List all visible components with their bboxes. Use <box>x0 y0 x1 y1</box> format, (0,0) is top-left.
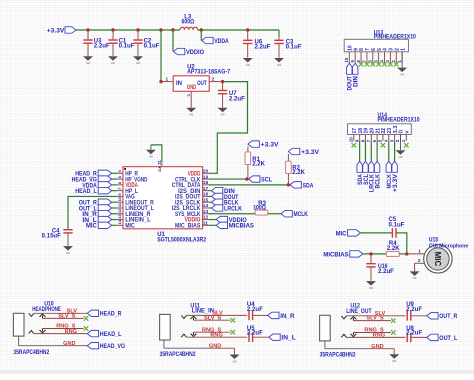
capacitor U4 2.2uF <box>247 302 263 320</box>
U10 pin SLV_S <box>43 314 84 320</box>
wire SYS_MCLK to R3 <box>208 213 255 215</box>
U11 tip contact <box>181 315 186 318</box>
wire HEAD_R to U1 <box>112 172 118 174</box>
U12 tip contact <box>341 316 346 319</box>
svg-text:16: 16 <box>203 192 209 198</box>
no-connect RNG_S <box>84 326 89 331</box>
wire C5 to mic node <box>396 233 407 254</box>
wire U9 to OUT_R <box>411 315 427 317</box>
svg-text:OUT_L: OUT_L <box>439 335 457 342</box>
wire HEAD_VG to U1 <box>112 178 118 180</box>
pin 1 U15 <box>407 248 425 254</box>
net flag MCLK <box>281 211 308 219</box>
node junction VDDIO branch <box>171 28 174 31</box>
net flag VDDA <box>202 37 229 45</box>
wire U14 pin 8 <box>364 141 366 162</box>
connector U10 HEADPHONE 35RAPC4BHN2 <box>13 302 61 356</box>
net flag HEAD_R (U1 left) <box>75 170 111 178</box>
wire CTRL_CLK to SCL <box>208 178 247 180</box>
svg-text:GND: GND <box>232 359 236 363</box>
svg-text:600Ω: 600Ω <box>182 19 195 25</box>
svg-text:SCL: SCL <box>261 176 272 183</box>
net flag IN_L <box>269 334 296 342</box>
wire +3.3V down to U2 IN <box>160 30 162 82</box>
svg-text:SLV_S: SLV_S <box>204 315 222 321</box>
node junction C1 <box>111 28 114 31</box>
no-connect SLV_S <box>391 318 396 323</box>
wire HEAD_L to U1 <box>112 190 118 192</box>
svg-text:2: 2 <box>418 258 421 264</box>
capacitor U7 2.2uF <box>218 82 245 108</box>
node junction mic pin1 <box>405 252 408 255</box>
svg-text:LRCLK: LRCLK <box>224 205 242 212</box>
node junction to U2 <box>159 28 162 31</box>
ground below U15 pin 2 <box>410 271 420 276</box>
ground below C4 <box>63 246 73 251</box>
svg-text:0.1uF: 0.1uF <box>119 44 135 50</box>
wire OUT_L to U1 <box>112 207 118 209</box>
svg-text:2.2uF: 2.2uF <box>94 44 110 50</box>
svg-text:1: 1 <box>166 76 169 82</box>
U10 ring contact <box>29 331 34 334</box>
net flag MICBIAS (U1) <box>216 222 254 230</box>
pin 3 U2 GND <box>186 91 191 107</box>
node junction SCL <box>245 177 248 180</box>
U1 top pin 21 <box>157 159 162 166</box>
capacitor C1 0.1uF <box>108 30 135 56</box>
wire OUT_R to U1 <box>112 201 118 203</box>
wire +3.3V rail <box>76 29 279 31</box>
U13 pins 1-10 <box>344 52 402 64</box>
U11 pin SLV <box>187 311 248 317</box>
wire IN_L to U1 <box>112 219 118 221</box>
svg-text:+3.3V: +3.3V <box>301 149 319 156</box>
ground below U11 <box>230 355 240 360</box>
resistor R4 2.2K <box>386 241 400 256</box>
U12 GND wire segment <box>370 349 394 355</box>
svg-text:SGTL5000XNLA3R2: SGTL5000XNLA3R2 <box>157 238 207 244</box>
ground below U3 <box>83 56 93 61</box>
capacitor C2 0.1uF <box>133 30 160 56</box>
net flag LRCLK (U14) <box>369 161 376 192</box>
svg-text:21: 21 <box>157 159 162 164</box>
ground U13 pin 1 <box>397 52 407 77</box>
wire I2S to DIN <box>208 190 211 192</box>
resistor R2 2.2K <box>286 154 306 185</box>
svg-text:2.2uF: 2.2uF <box>247 307 263 313</box>
audio codec U1 SGTL5000XNLA3R2 <box>123 166 207 244</box>
ground below C1 <box>108 56 118 61</box>
no-connect RNG_S <box>231 330 236 335</box>
svg-text:HEAD_L: HEAD_L <box>100 331 122 338</box>
net flag DOUT <box>347 63 354 90</box>
wire to VDDIO flag <box>172 30 174 52</box>
ground above U1 <box>146 145 156 159</box>
node junction U2 IN <box>159 80 162 83</box>
svg-text:14: 14 <box>117 219 122 224</box>
U11 ring contact <box>181 334 186 337</box>
svg-text:VDDA: VDDA <box>214 38 228 45</box>
svg-text:2.2uF: 2.2uF <box>247 331 263 337</box>
no-connect marks U14 <box>352 143 409 148</box>
wire MIC_BIAS pin <box>208 224 216 226</box>
power flag +3.3V <box>47 27 76 35</box>
ground below U7 <box>218 108 228 113</box>
capacitor C4 0.15uF <box>42 228 73 246</box>
U10 pin RNG <box>34 329 87 335</box>
svg-text:2.2uF: 2.2uF <box>406 307 422 313</box>
svg-text:35RAPC4BHN2: 35RAPC4BHN2 <box>13 350 49 356</box>
wire MIC to U1 <box>112 224 118 226</box>
power flag +3.3V (R2) <box>288 148 319 156</box>
svg-text:2: 2 <box>212 76 215 82</box>
svg-text:MIC: MIC <box>433 252 442 267</box>
no-connect SLV_S <box>84 316 89 321</box>
inductor L3 600 ohm <box>180 14 198 30</box>
ground below U6 <box>243 58 253 63</box>
svg-text:OUT_R: OUT_R <box>439 313 457 320</box>
net flag VDDIO (U1) <box>216 216 247 224</box>
U12 pin SLV <box>347 311 406 317</box>
wire U8 to OUT_L <box>411 336 427 338</box>
pin header U14 PINHEADER1X10 <box>348 113 421 135</box>
U11 pin RNG <box>187 332 248 338</box>
ground below C2 <box>133 56 143 61</box>
capacitor C3 0.1uF <box>274 37 302 58</box>
svg-text:0.1uF: 0.1uF <box>286 44 302 50</box>
U12 pin RNG <box>347 333 406 339</box>
svg-text:+3.3V: +3.3V <box>392 174 399 192</box>
svg-text:MIC_BIAS: MIC_BIAS <box>175 224 200 230</box>
wire U5 to IN_L <box>253 336 269 338</box>
U14 pins 1-10 <box>349 135 407 143</box>
U12 pin GND <box>325 341 384 350</box>
svg-text:12: 12 <box>117 208 122 213</box>
net flag MCLK (U14) <box>386 161 393 188</box>
svg-text:18: 18 <box>203 180 209 186</box>
svg-text:MIC: MIC <box>86 223 97 230</box>
net flag HEAD_L (U10) <box>87 330 121 338</box>
no-connect SLV_S <box>231 318 236 323</box>
svg-text:GND: GND <box>136 61 140 65</box>
svg-text:2.2uF: 2.2uF <box>378 269 394 275</box>
svg-text:HEAD_L: HEAD_L <box>75 188 97 195</box>
wire top pin to ground <box>151 145 162 162</box>
capacitor U3 2.2uF <box>83 30 110 56</box>
wire IN_R to U1 <box>112 213 118 215</box>
pin 1 U2 <box>161 76 173 82</box>
no-connect RNG_S <box>391 330 396 335</box>
svg-text:GND: GND <box>413 276 417 280</box>
U12 pin RNG_S <box>353 328 391 334</box>
U11 GND wire segment <box>210 348 235 354</box>
svg-text:35RAPC4BHN2: 35RAPC4BHN2 <box>160 352 196 358</box>
svg-text:10: 10 <box>349 137 354 143</box>
svg-text:0.1uF: 0.1uF <box>144 44 160 50</box>
wire VDDA to U1 <box>112 184 118 186</box>
svg-text:13: 13 <box>203 209 209 215</box>
svg-text:+3.3V: +3.3V <box>261 141 279 148</box>
U10 pin SLV <box>34 309 87 315</box>
wire VDDIO pin <box>208 219 216 221</box>
U10 pin GND <box>19 336 76 347</box>
ground below U2 <box>186 108 196 113</box>
node junction U6 <box>246 28 249 31</box>
svg-text:GND: GND <box>189 113 193 117</box>
wire I2S to BCLK <box>208 201 211 203</box>
net flag IN_L (U1 left) <box>82 216 111 224</box>
svg-text:SLV_S: SLV_S <box>58 314 76 320</box>
node junction SDA <box>287 183 290 186</box>
wire R4 to mic node <box>399 253 407 255</box>
U10 pin RNG_S <box>43 324 84 330</box>
voltage regulator U2 AP7313-18SAG-7 <box>173 64 230 91</box>
net flag OUT_R (U1 left) <box>79 199 112 207</box>
net flag BCLK (U14) <box>374 161 381 188</box>
svg-text:LINE_IN: LINE_IN <box>192 309 214 315</box>
wire U14 pin 3 <box>394 141 396 162</box>
svg-text:2.2uF: 2.2uF <box>406 331 422 337</box>
svg-text:HEADPHONE: HEADPHONE <box>32 307 61 313</box>
net flag LRCLK <box>212 205 243 213</box>
net flag SDA <box>290 182 313 190</box>
U11 pin RNG_S <box>194 327 231 333</box>
net flag OUT_L (U1 left) <box>79 205 112 213</box>
svg-text:2.2K: 2.2K <box>292 170 305 176</box>
svg-text:IN_R: IN_R <box>280 313 294 320</box>
U12 switch contact SLV_S <box>350 317 356 321</box>
U11 switch contact SLV_S <box>191 316 197 320</box>
U1 right pin stubs <box>203 169 209 227</box>
U11 switch contact RNG_S <box>191 332 197 336</box>
svg-text:12: 12 <box>203 215 209 221</box>
svg-text:MIC: MIC <box>336 230 347 237</box>
wire VAG to C4 <box>68 196 117 228</box>
svg-text:11: 11 <box>203 221 208 227</box>
capacitor U16 2.2uF <box>366 254 394 281</box>
svg-text:1: 1 <box>418 248 421 254</box>
svg-text:CUI Microphone: CUI Microphone <box>429 243 469 249</box>
net flag SDA (U14) <box>357 161 364 185</box>
svg-text:IN_L: IN_L <box>281 335 295 342</box>
net flag VDDIO <box>174 48 205 56</box>
wire I2S to LRCLK <box>208 207 211 209</box>
wire MICBIAS to R4 <box>363 253 386 255</box>
pin 2 U15 <box>415 258 425 271</box>
ground below C3 <box>274 58 284 63</box>
capacitor U9 2.2uF <box>406 302 422 321</box>
wire to VDDA flag <box>200 30 202 41</box>
svg-text:GND: GND <box>400 72 404 76</box>
svg-text:GND: GND <box>246 63 250 67</box>
svg-text:35RAPC4BHN2: 35RAPC4BHN2 <box>320 353 356 359</box>
wire U14 pin 9 <box>359 141 361 162</box>
svg-text:MIC: MIC <box>125 224 135 230</box>
ground below U12 <box>389 354 399 359</box>
wire U14 pin 6 <box>376 141 378 162</box>
svg-text:2.2uF: 2.2uF <box>255 44 271 50</box>
net flag BCLK <box>212 199 239 207</box>
no-connect marks U13 <box>359 62 399 67</box>
svg-text:GND: GND <box>392 359 396 363</box>
svg-text:GND: GND <box>277 63 281 67</box>
node junction C2 <box>136 28 139 31</box>
net flag SCL <box>249 176 272 184</box>
svg-text:HEAD_R: HEAD_R <box>100 311 122 318</box>
capacitor U6 2.2uF <box>243 30 271 58</box>
svg-text:GND: GND <box>221 113 225 117</box>
net flag VDDA (U1 left) <box>82 182 111 190</box>
wire U14 pin 7 <box>370 141 372 162</box>
connector U12 LINE_OUT 35RAPC4BHN2 <box>320 304 372 359</box>
capacitor U5 2.2uF <box>247 326 263 342</box>
U10 tip contact <box>29 313 34 316</box>
svg-text:v: v <box>404 131 410 134</box>
U10 GND wire to HEAD_VG <box>63 345 87 347</box>
svg-text:GND: GND <box>398 155 402 159</box>
svg-text:2.2K: 2.2K <box>387 246 400 252</box>
svg-text:IN: IN <box>176 81 182 87</box>
svg-text:0.1uF: 0.1uF <box>389 222 405 228</box>
node junction U3 <box>86 28 89 31</box>
svg-text:VDDIO: VDDIO <box>186 49 204 56</box>
wire CTRL_DATA to SDA <box>208 184 288 186</box>
wire U14 pin 4 <box>388 141 390 162</box>
connector U11 LINE_IN 35RAPC4BHN2 <box>160 304 214 359</box>
svg-text:HEAD_VG: HEAD_VG <box>100 343 125 350</box>
svg-text:GND: GND <box>66 251 70 255</box>
capacitor C5 0.1uF <box>389 217 405 238</box>
resistor R1 2.2K <box>245 147 266 180</box>
node junction U2 OUT <box>221 80 224 83</box>
resistor R3 100 ohm <box>253 201 268 215</box>
U11 pin SLV_S <box>194 315 231 321</box>
svg-text:GND: GND <box>111 61 115 65</box>
ground below U16 <box>366 281 376 286</box>
net flag DOUT <box>212 193 240 201</box>
net flag HEAD_VG (U10) <box>87 343 125 351</box>
svg-text:AP7313-18SAG-7: AP7313-18SAG-7 <box>187 70 231 76</box>
svg-text:10: 10 <box>344 57 349 63</box>
power flag +3.3V (R1) <box>248 141 279 149</box>
svg-text:RNG: RNG <box>210 332 222 338</box>
net flag DIN <box>352 63 359 87</box>
wire MIC to C5 <box>360 232 392 234</box>
svg-text:OUT: OUT <box>197 81 207 87</box>
svg-text:DIN: DIN <box>352 76 359 87</box>
svg-text:PINHEADER1X10: PINHEADER1X10 <box>378 117 421 123</box>
svg-text:BCLK: BCLK <box>374 174 381 188</box>
svg-text:15: 15 <box>203 197 209 203</box>
ground U14 pin 2 <box>395 135 405 160</box>
net flag IN_R (U1 left) <box>82 211 111 219</box>
net flag IN_R <box>268 312 295 320</box>
svg-text:GND: GND <box>187 85 197 91</box>
svg-text:19: 19 <box>203 174 209 180</box>
wire U4 to IN_R <box>253 314 268 316</box>
U12 ring contact <box>341 334 346 337</box>
U1 left pin stubs <box>117 170 123 226</box>
net flag +3.3V (U14) <box>392 161 399 192</box>
pin 2 U2 <box>209 76 222 82</box>
microphone U15 CUI Microphone <box>424 238 469 274</box>
svg-text:RNG: RNG <box>373 333 385 339</box>
svg-text:20: 20 <box>203 169 209 175</box>
net flag HEAD_VG (U1 left) <box>72 176 112 184</box>
net flag MIC (U1 left) <box>86 222 112 230</box>
wire R3 to MCLK <box>268 213 281 215</box>
svg-text:MCLK: MCLK <box>294 211 308 218</box>
wire corner to C3 <box>278 30 280 37</box>
svg-text:14: 14 <box>203 203 209 209</box>
svg-text:1: 1 <box>400 48 406 51</box>
svg-text:17: 17 <box>203 186 209 192</box>
svg-text:RNG: RNG <box>65 329 77 335</box>
svg-text:GND: GND <box>369 286 373 290</box>
node junction U16 <box>369 252 372 255</box>
svg-text:SDA: SDA <box>303 182 314 189</box>
wire U2 OUT to U1 VDDD pin 20 <box>208 82 247 174</box>
net flag OUT_L <box>427 334 458 342</box>
svg-text:GND: GND <box>86 61 90 65</box>
node junction VDDA <box>200 28 203 31</box>
net flag MICBIAS (to R4) <box>323 251 362 259</box>
U12 switch contact RNG_S <box>350 333 356 337</box>
svg-text:10: 10 <box>117 196 122 201</box>
svg-text:MICBIAS: MICBIAS <box>229 223 255 230</box>
capacitor U8 2.2uF <box>406 326 422 342</box>
net flag HEAD_R (U10) <box>87 310 121 318</box>
svg-text:0.15uF: 0.15uF <box>42 234 61 240</box>
svg-text:GND: GND <box>149 155 153 159</box>
svg-text:2.2K: 2.2K <box>252 162 265 168</box>
U10 switch contact SLV_S <box>40 314 46 318</box>
net flag DIN <box>212 187 235 195</box>
svg-text:2.2uF: 2.2uF <box>229 96 245 102</box>
net flag SCL (U14) <box>363 161 370 185</box>
U10 switch contact RNG_S <box>40 329 46 333</box>
net flag HEAD_L (U1 left) <box>75 187 111 195</box>
U12 pin SLV_S <box>353 316 391 322</box>
pin header U13 PINHEADER1X10 <box>344 30 416 51</box>
net flag MIC (to C5) <box>336 230 361 238</box>
svg-text:100Ω: 100Ω <box>253 206 266 212</box>
svg-text:LINE_OUT: LINE_OUT <box>346 309 372 315</box>
svg-text:13: 13 <box>117 214 122 219</box>
svg-text:CLK: CLK <box>158 166 162 172</box>
svg-text:SLV_S: SLV_S <box>366 316 384 322</box>
wire I2S to DOUT <box>208 195 211 197</box>
svg-text:+3.3V: +3.3V <box>47 28 65 35</box>
net flag OUT_R <box>427 313 458 321</box>
svg-text:MICBIAS: MICBIAS <box>323 251 349 258</box>
U11 pin GND <box>164 340 221 349</box>
